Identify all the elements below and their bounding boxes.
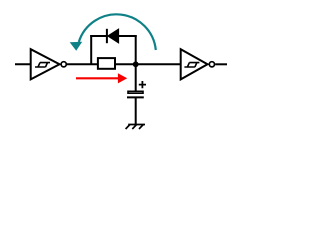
capacitor C1 (polarized) bbox=[127, 91, 144, 97]
bubble U1 output bbox=[61, 62, 66, 67]
wire bubble to resistor bbox=[67, 63, 98, 65]
wire feedback loop top right segment bbox=[119, 35, 137, 37]
junction node bbox=[133, 61, 139, 67]
wire resistor to right inverter bbox=[116, 63, 182, 65]
diode D1 bbox=[107, 29, 119, 43]
wire junction to capacitor bbox=[135, 64, 137, 91]
wire input left bbox=[15, 63, 32, 65]
feedback arc (teal) bbox=[79, 14, 156, 50]
capacitor C1 plus label bbox=[139, 81, 146, 88]
inverter U2 (Schmitt trigger, right) bbox=[181, 49, 208, 79]
wire feedback loop right vertical bbox=[135, 35, 137, 64]
resistor R1 bbox=[98, 58, 115, 69]
wire feedback loop left vertical bbox=[90, 35, 92, 64]
ground bbox=[126, 125, 145, 130]
inverter U1 (Schmitt trigger, left) bbox=[31, 49, 60, 79]
wire capacitor to ground bbox=[135, 97, 137, 124]
wire feedback loop top left segment bbox=[90, 35, 107, 37]
feedback arrowhead (teal) bbox=[70, 42, 83, 51]
current arrow (red) bbox=[76, 73, 127, 83]
bubble U2 output bbox=[209, 62, 214, 67]
wire output right bbox=[215, 63, 227, 65]
